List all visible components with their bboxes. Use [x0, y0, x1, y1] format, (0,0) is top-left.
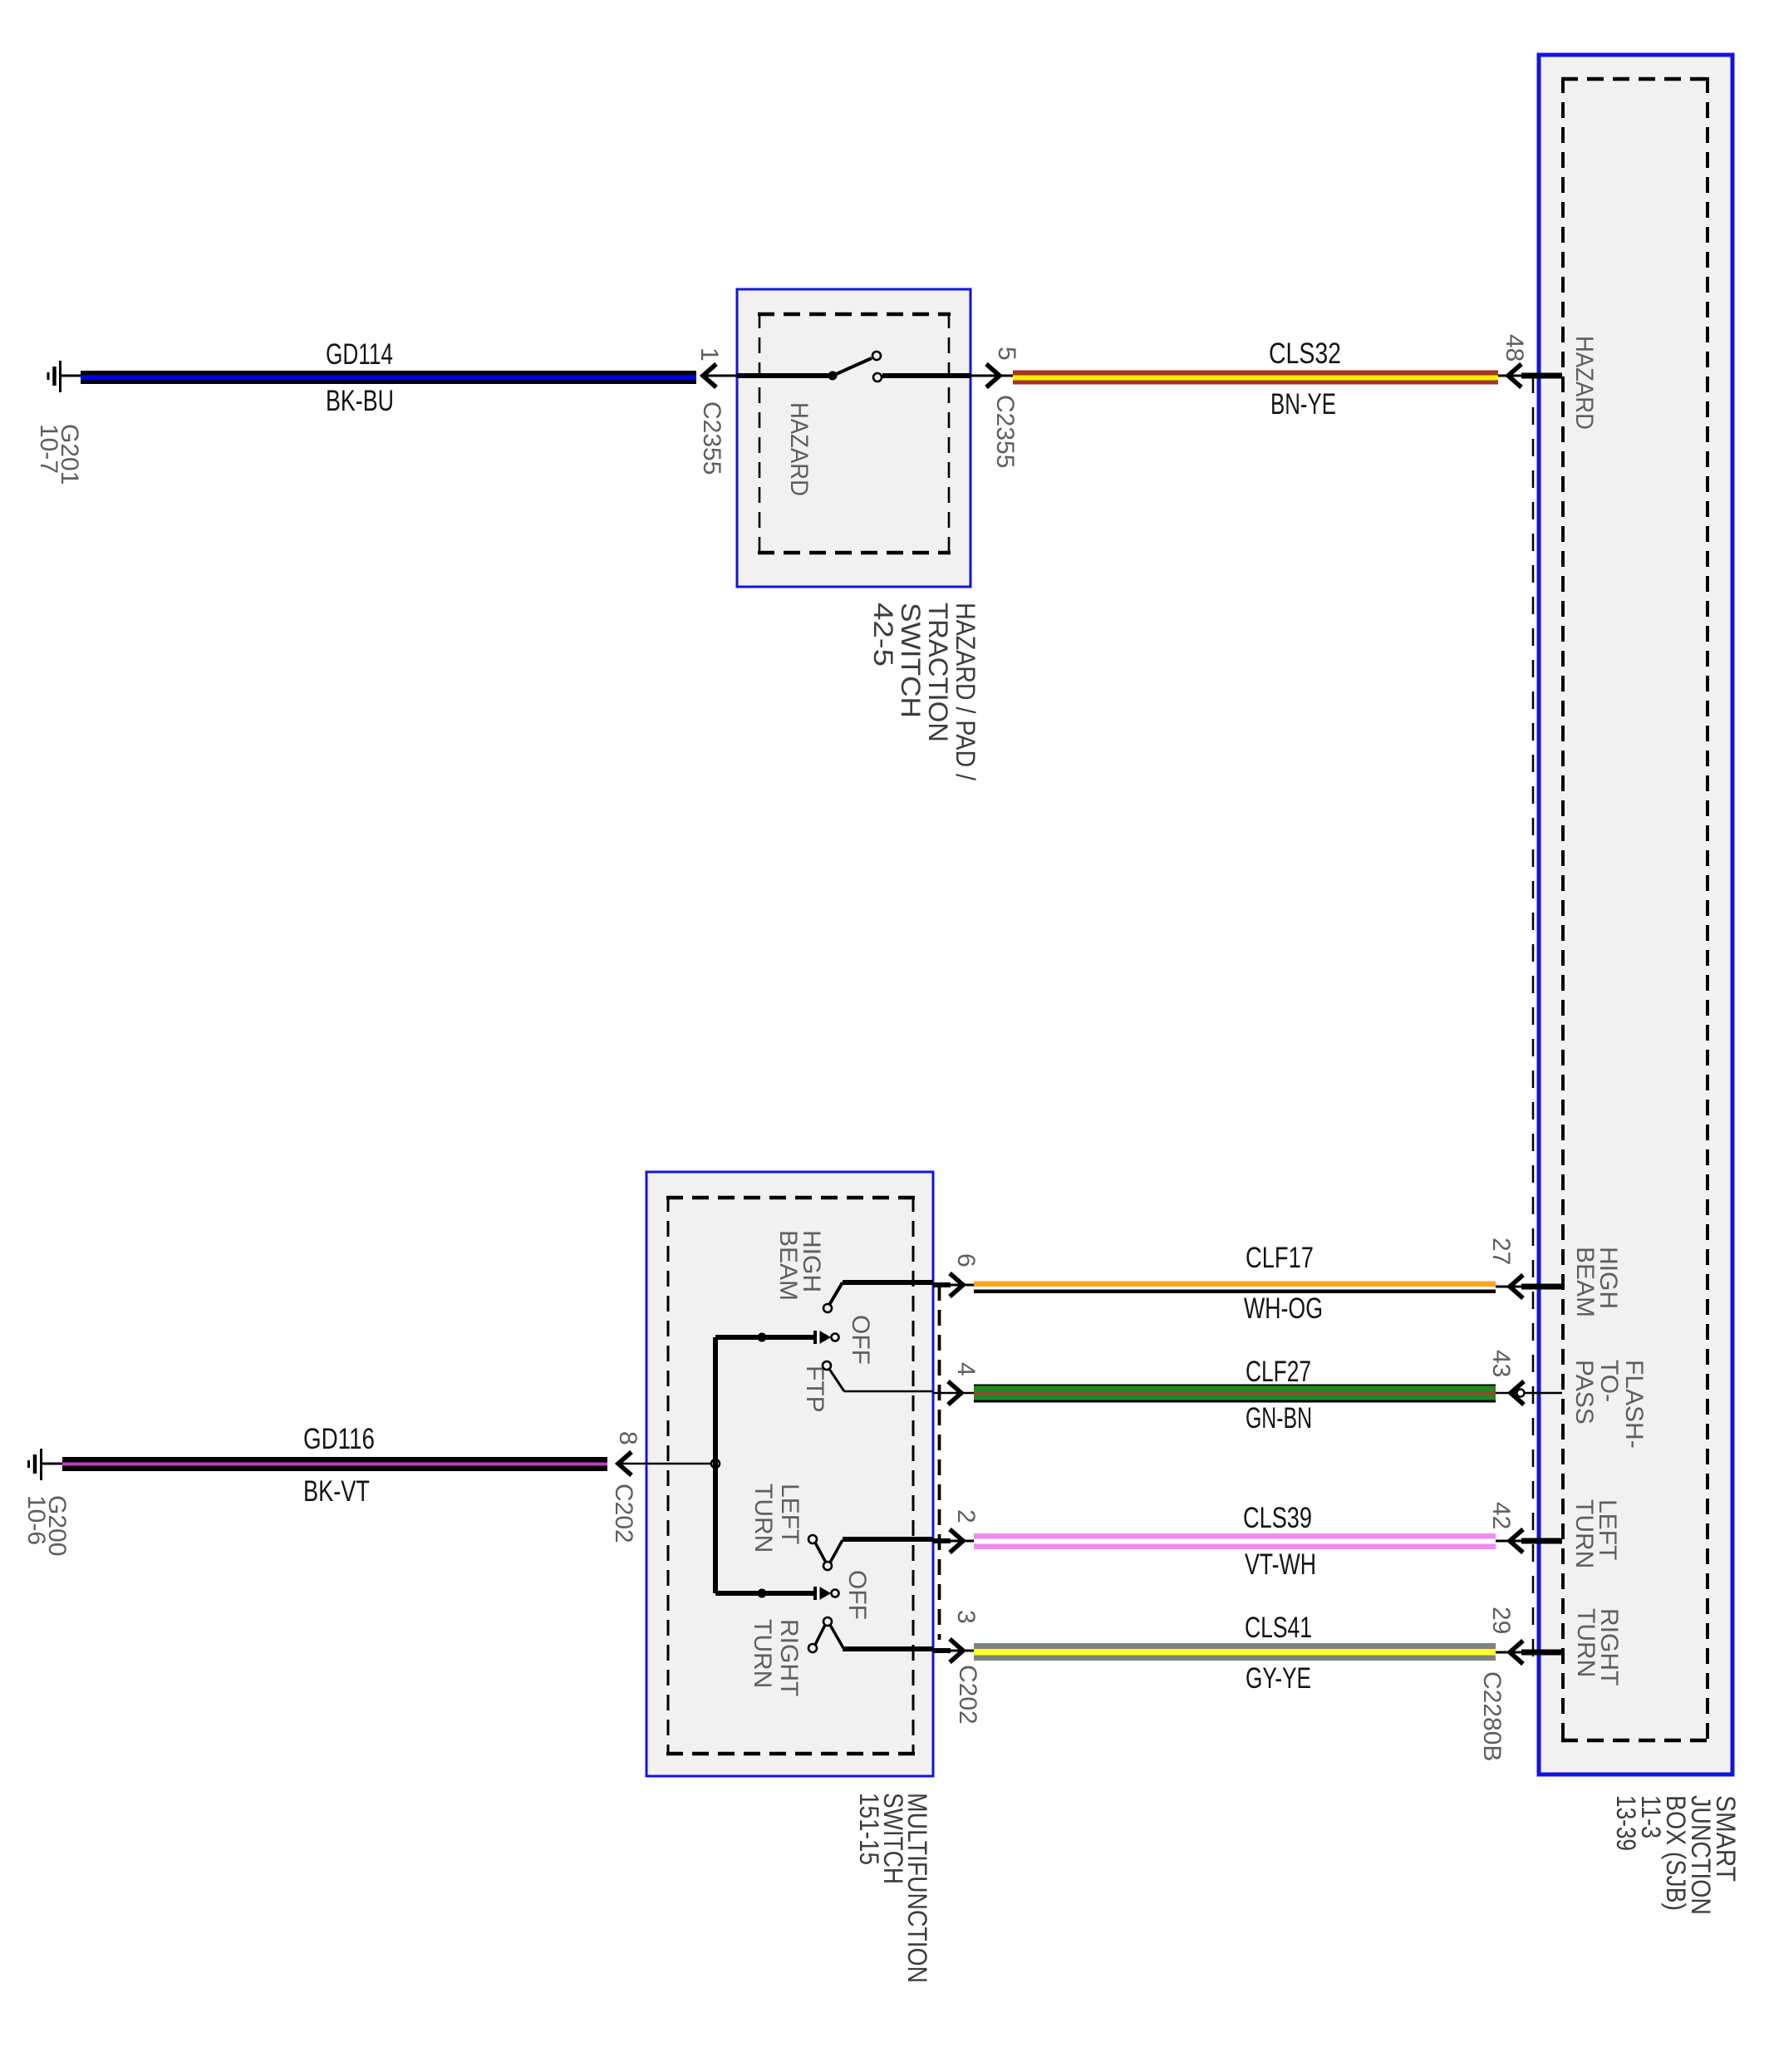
svg-text:FTP: FTP [801, 1366, 828, 1413]
ground G200 [29, 1449, 63, 1480]
svg-text:C2355: C2355 [698, 401, 725, 475]
wire GD114 BK-BU [81, 371, 696, 384]
svg-text:BN-YE: BN-YE [1270, 388, 1336, 421]
wire CLS41 GY-YE [974, 1643, 1496, 1661]
MFS OFF contact branch (high beam) [715, 1331, 839, 1344]
wire CLS39 VT-WH [974, 1533, 1496, 1549]
svg-text:GD116: GD116 [303, 1423, 375, 1455]
svg-text:LEFTTURN: LEFTTURN [1570, 1499, 1621, 1568]
svg-text:C202: C202 [610, 1484, 637, 1543]
smart junction box SJB outline [1539, 55, 1732, 1774]
MFS left turn lever [808, 1535, 933, 1570]
MFS pin 8 arrow [618, 1452, 715, 1475]
connector C2355 pin 1 arrow [703, 364, 737, 387]
svg-text:VT-WH: VT-WH [1245, 1548, 1316, 1581]
svg-text:27: 27 [1487, 1238, 1515, 1265]
MFS high beam lever [823, 1282, 933, 1312]
svg-text:WH-OG: WH-OG [1244, 1292, 1323, 1325]
svg-text:3: 3 [952, 1610, 980, 1624]
svg-text:GN-BN: GN-BN [1246, 1402, 1312, 1435]
svg-text:CLS32: CLS32 [1269, 337, 1341, 370]
svg-text:6: 6 [952, 1253, 980, 1267]
MFS pin 8 junction circle [711, 1459, 720, 1468]
wire CLS32 BN-YE [1013, 371, 1498, 385]
svg-text:OFF: OFF [847, 1315, 874, 1365]
MFS OFF contact branch (turn) [715, 1587, 839, 1600]
svg-text:42: 42 [1487, 1502, 1515, 1529]
svg-text:43: 43 [1487, 1350, 1515, 1377]
svg-text:GY-YE: GY-YE [1246, 1662, 1311, 1695]
MFS pin 4 arrow [933, 1381, 974, 1405]
wire CLF17 WH-OG [974, 1282, 1496, 1294]
hazard switch lever end circle [872, 352, 881, 360]
svg-text:OFF: OFF [843, 1570, 871, 1620]
svg-text:48: 48 [1501, 334, 1528, 362]
SJB pin 27 arrow and stub [1496, 1275, 1562, 1298]
multifunction switch box outline [646, 1172, 933, 1776]
SJB pin 43 arrow with circle [1496, 1381, 1562, 1405]
hazard switch pivot dot [828, 372, 838, 381]
SJB pin 42 arrow and stub [1496, 1529, 1562, 1553]
svg-text:HAZARD: HAZARD [785, 402, 813, 496]
ground G201 [48, 361, 81, 392]
hazard switch wire out [882, 373, 970, 378]
MFS right turn lever [808, 1617, 933, 1652]
svg-text:HAZARD: HAZARD [1570, 336, 1598, 430]
svg-text:C2355: C2355 [991, 395, 1019, 468]
svg-text:CLF17: CLF17 [1246, 1242, 1314, 1274]
hazard / pad / traction switch box outline [737, 289, 970, 587]
connector C202 dashed line (MFS right side) [938, 1285, 941, 1640]
MFS switch trunk [713, 1337, 718, 1593]
wire CLF27 GN-BN [974, 1385, 1496, 1403]
connector C2280B dashed line [1478, 376, 1533, 1761]
svg-text:2: 2 [952, 1509, 980, 1523]
hazard switch lever [833, 358, 872, 376]
svg-text:HIGHBEAM: HIGHBEAM [1571, 1247, 1622, 1317]
hazard switch wire in [737, 373, 833, 378]
MFS pin 2 arrow [933, 1529, 974, 1553]
MFS pin 6 arrow [933, 1273, 974, 1297]
connector C2355 pin 5 arrow [970, 364, 1013, 387]
svg-text:C202: C202 [954, 1665, 981, 1725]
MFS pin 3 arrow [933, 1639, 974, 1662]
svg-text:LEFTTURN: LEFTTURN [749, 1484, 803, 1553]
svg-text:GD114: GD114 [326, 338, 393, 371]
svg-text:RIGHTTURN: RIGHTTURN [1572, 1608, 1623, 1686]
svg-text:BK-VT: BK-VT [303, 1475, 370, 1508]
svg-text:1: 1 [695, 347, 723, 362]
svg-text:CLF27: CLF27 [1246, 1356, 1311, 1388]
SJB pin 48 arrow and stub [1498, 364, 1562, 387]
svg-text:BK-BU: BK-BU [326, 385, 394, 417]
svg-text:RIGHTTURN: RIGHTTURN [749, 1619, 803, 1696]
svg-text:CLS41: CLS41 [1245, 1612, 1312, 1644]
SJB pin 29 arrow and stub [1496, 1641, 1562, 1664]
svg-text:5: 5 [993, 347, 1020, 361]
MFS FTP lever [823, 1361, 933, 1391]
wire GD116 BK-VT [62, 1457, 607, 1471]
hazard switch contact circle [873, 373, 882, 381]
svg-text:C2280B: C2280B [1478, 1671, 1506, 1761]
svg-text:8: 8 [614, 1431, 641, 1445]
svg-text:4: 4 [952, 1362, 980, 1376]
svg-text:CLS39: CLS39 [1243, 1502, 1312, 1534]
svg-text:HIGHBEAM: HIGHBEAM [774, 1230, 825, 1301]
svg-text:29: 29 [1487, 1607, 1515, 1634]
